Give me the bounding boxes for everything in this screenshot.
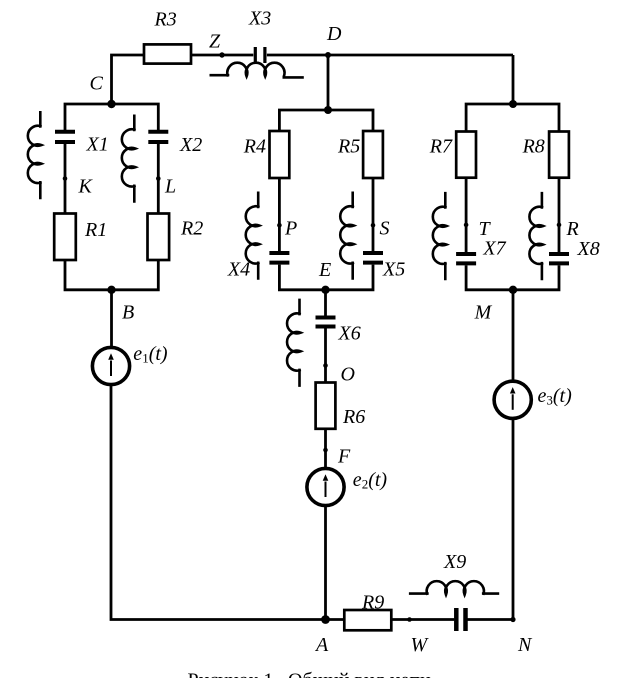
svg-text:R6: R6 — [342, 406, 365, 428]
svg-text:P: P — [284, 217, 297, 239]
svg-text:Общий вид цепи: Общий вид цепи — [288, 670, 431, 678]
reactance X2 capacitor — [148, 132, 168, 142]
label R7 — [429, 136, 453, 158]
svg-text:R9: R9 — [361, 592, 384, 614]
label X3 — [248, 8, 271, 30]
reactance X1 capacitor — [55, 132, 75, 142]
reactance X9 inductor — [409, 581, 499, 595]
resistor R8 — [549, 132, 569, 178]
wire e3 to node N — [512, 418, 515, 619]
label P — [284, 217, 297, 239]
reactance X3 inductor — [210, 63, 304, 78]
svg-text:e3(t): e3(t) — [538, 385, 573, 408]
svg-text:N: N — [517, 634, 533, 656]
wire R3 to node Z — [191, 54, 222, 57]
svg-text:Рисунок 1 -: Рисунок 1 - — [188, 670, 286, 678]
label F — [337, 446, 351, 468]
label K — [78, 175, 94, 197]
wire right upper rail — [466, 104, 559, 132]
node E — [321, 286, 329, 294]
resistor R9 — [344, 610, 391, 630]
svg-text:Z: Z — [209, 31, 221, 53]
svg-text:X9: X9 — [443, 551, 466, 573]
label B — [122, 302, 134, 324]
svg-text:X7: X7 — [482, 238, 506, 260]
resistor R5 — [363, 131, 383, 178]
reactance X1 inductor — [28, 111, 42, 199]
svg-text:R8: R8 — [522, 136, 545, 158]
svg-text:R3: R3 — [154, 9, 177, 31]
svg-text:X5: X5 — [382, 259, 405, 281]
svg-text:R4: R4 — [243, 135, 266, 157]
label S — [380, 217, 390, 239]
node M — [509, 286, 517, 294]
node R — [557, 223, 562, 228]
svg-text:X3: X3 — [248, 8, 271, 30]
node K — [63, 176, 68, 181]
source e1 — [92, 347, 129, 384]
source e2 — [307, 468, 344, 505]
svg-text:S: S — [380, 217, 390, 239]
node L — [156, 176, 161, 181]
caption — [188, 670, 432, 678]
svg-text:e2(t): e2(t) — [353, 469, 388, 492]
resistor R1 — [54, 214, 76, 261]
wire left lower rail — [65, 260, 158, 290]
svg-text:R: R — [566, 218, 579, 240]
label X8 — [577, 238, 600, 260]
label Z — [209, 31, 221, 53]
wire X3 to node D — [267, 54, 328, 57]
label e2(t) — [353, 469, 388, 492]
source e3 — [494, 381, 531, 418]
label A — [314, 634, 329, 656]
wire e2 to node A — [324, 506, 327, 620]
label R9 — [361, 592, 384, 614]
wire right riser from top rail — [512, 55, 515, 104]
label W — [411, 634, 430, 656]
svg-text:K: K — [78, 175, 94, 197]
wire X2 to R2 — [157, 144, 160, 214]
label X2 — [179, 134, 202, 156]
node O — [323, 363, 328, 368]
svg-text:B: B — [122, 302, 134, 324]
resistor R3 — [144, 44, 191, 63]
label R4 — [243, 135, 266, 157]
wire X9 to node N — [468, 618, 514, 621]
svg-text:X2: X2 — [179, 134, 202, 156]
reactance X6 capacitor — [316, 318, 336, 327]
svg-text:X1: X1 — [86, 134, 109, 156]
wire right lower rail — [466, 265, 559, 289]
reactance X6 inductor — [287, 299, 301, 387]
svg-text:M: M — [474, 302, 493, 324]
label R2 — [180, 218, 203, 240]
resistor R2 — [148, 214, 170, 261]
label R8 — [522, 136, 545, 158]
label R5 — [337, 135, 360, 157]
svg-text:R2: R2 — [180, 218, 203, 240]
wire R8 to X8 — [558, 178, 561, 252]
reactance X3 capacitor — [255, 47, 265, 63]
wire R6 to source e2 — [324, 429, 327, 469]
reactance X4 inductor — [246, 192, 260, 280]
svg-text:X4: X4 — [227, 259, 250, 281]
reactance X5 inductor — [340, 192, 354, 280]
label e1(t) — [133, 343, 168, 366]
wire X6 to R6 — [324, 329, 327, 383]
reactance X7 inductor — [433, 192, 447, 280]
resistor R7 — [456, 132, 476, 178]
wire E to X6 — [324, 290, 327, 316]
label O — [341, 364, 355, 386]
wire C riser to R3 — [112, 55, 145, 104]
reactance X2 inductor — [122, 115, 136, 203]
label C — [90, 73, 104, 95]
node T — [464, 223, 469, 228]
svg-text:e1(t): e1(t) — [133, 343, 168, 366]
label E — [318, 259, 331, 281]
reactance X4 capacitor — [269, 253, 289, 263]
svg-text:R5: R5 — [337, 135, 360, 157]
reactance X8 inductor — [529, 192, 543, 280]
svg-text:C: C — [90, 73, 104, 95]
svg-text:R7: R7 — [429, 136, 453, 158]
svg-text:T: T — [479, 218, 492, 240]
reactance X9 capacitor — [456, 608, 465, 631]
node W — [407, 617, 412, 622]
reactance X8 capacitor — [549, 254, 569, 263]
svg-text:A: A — [314, 634, 329, 656]
svg-text:D: D — [326, 23, 342, 45]
wire R7 to X7 — [465, 178, 468, 252]
node N — [510, 617, 515, 622]
wire Z to X3 — [222, 54, 253, 57]
node B — [107, 286, 115, 294]
svg-text:X6: X6 — [338, 323, 361, 345]
label R1 — [84, 219, 107, 241]
wire middle upper rail — [279, 110, 373, 131]
middle split junction — [324, 106, 332, 114]
wire middle lower rail — [279, 265, 373, 290]
resistor R4 — [270, 131, 290, 178]
node P — [277, 223, 282, 228]
label R6 — [342, 406, 365, 428]
label R — [566, 218, 579, 240]
wire R9 to node W — [391, 618, 409, 621]
svg-text:L: L — [164, 175, 176, 197]
node A — [321, 615, 330, 624]
label D — [326, 23, 342, 45]
label M — [474, 302, 493, 324]
svg-text:F: F — [337, 446, 351, 468]
svg-text:X8: X8 — [577, 238, 600, 260]
wire W to X9 capacitor — [410, 618, 455, 621]
reactance X7 capacitor — [456, 254, 476, 263]
node D — [325, 52, 331, 58]
svg-text:O: O — [341, 364, 355, 386]
svg-text:R1: R1 — [84, 219, 107, 241]
label T — [479, 218, 492, 240]
label X4 — [227, 259, 250, 281]
wire e1 to bottom-left corner to node A — [111, 385, 326, 620]
wire D to right section — [328, 54, 513, 57]
svg-text:E: E — [318, 259, 331, 281]
label R3 — [154, 9, 177, 31]
label X6 — [338, 323, 361, 345]
wire D riser — [327, 55, 330, 110]
node C — [107, 100, 115, 108]
label X5 — [382, 259, 405, 281]
label X9 — [443, 551, 466, 573]
svg-text:W: W — [411, 634, 430, 656]
wire A to R9 — [326, 618, 345, 621]
reactance X5 capacitor — [363, 253, 383, 263]
node F — [323, 448, 328, 453]
label N — [517, 634, 533, 656]
wire R5 to X5 — [372, 178, 375, 251]
resistor R6 — [316, 383, 336, 429]
right split junction — [509, 100, 517, 108]
wire R4 to X4 — [278, 178, 281, 251]
node Z — [219, 52, 224, 57]
label L — [164, 175, 176, 197]
label X1 — [86, 134, 109, 156]
wire X1 to R1 — [64, 144, 67, 214]
node S — [371, 223, 376, 228]
wire M to source e3 — [512, 290, 515, 381]
label X7 — [482, 238, 506, 260]
label e3(t) — [538, 385, 573, 408]
wire left upper rail — [65, 104, 158, 130]
wire B to source e1 — [110, 290, 113, 348]
